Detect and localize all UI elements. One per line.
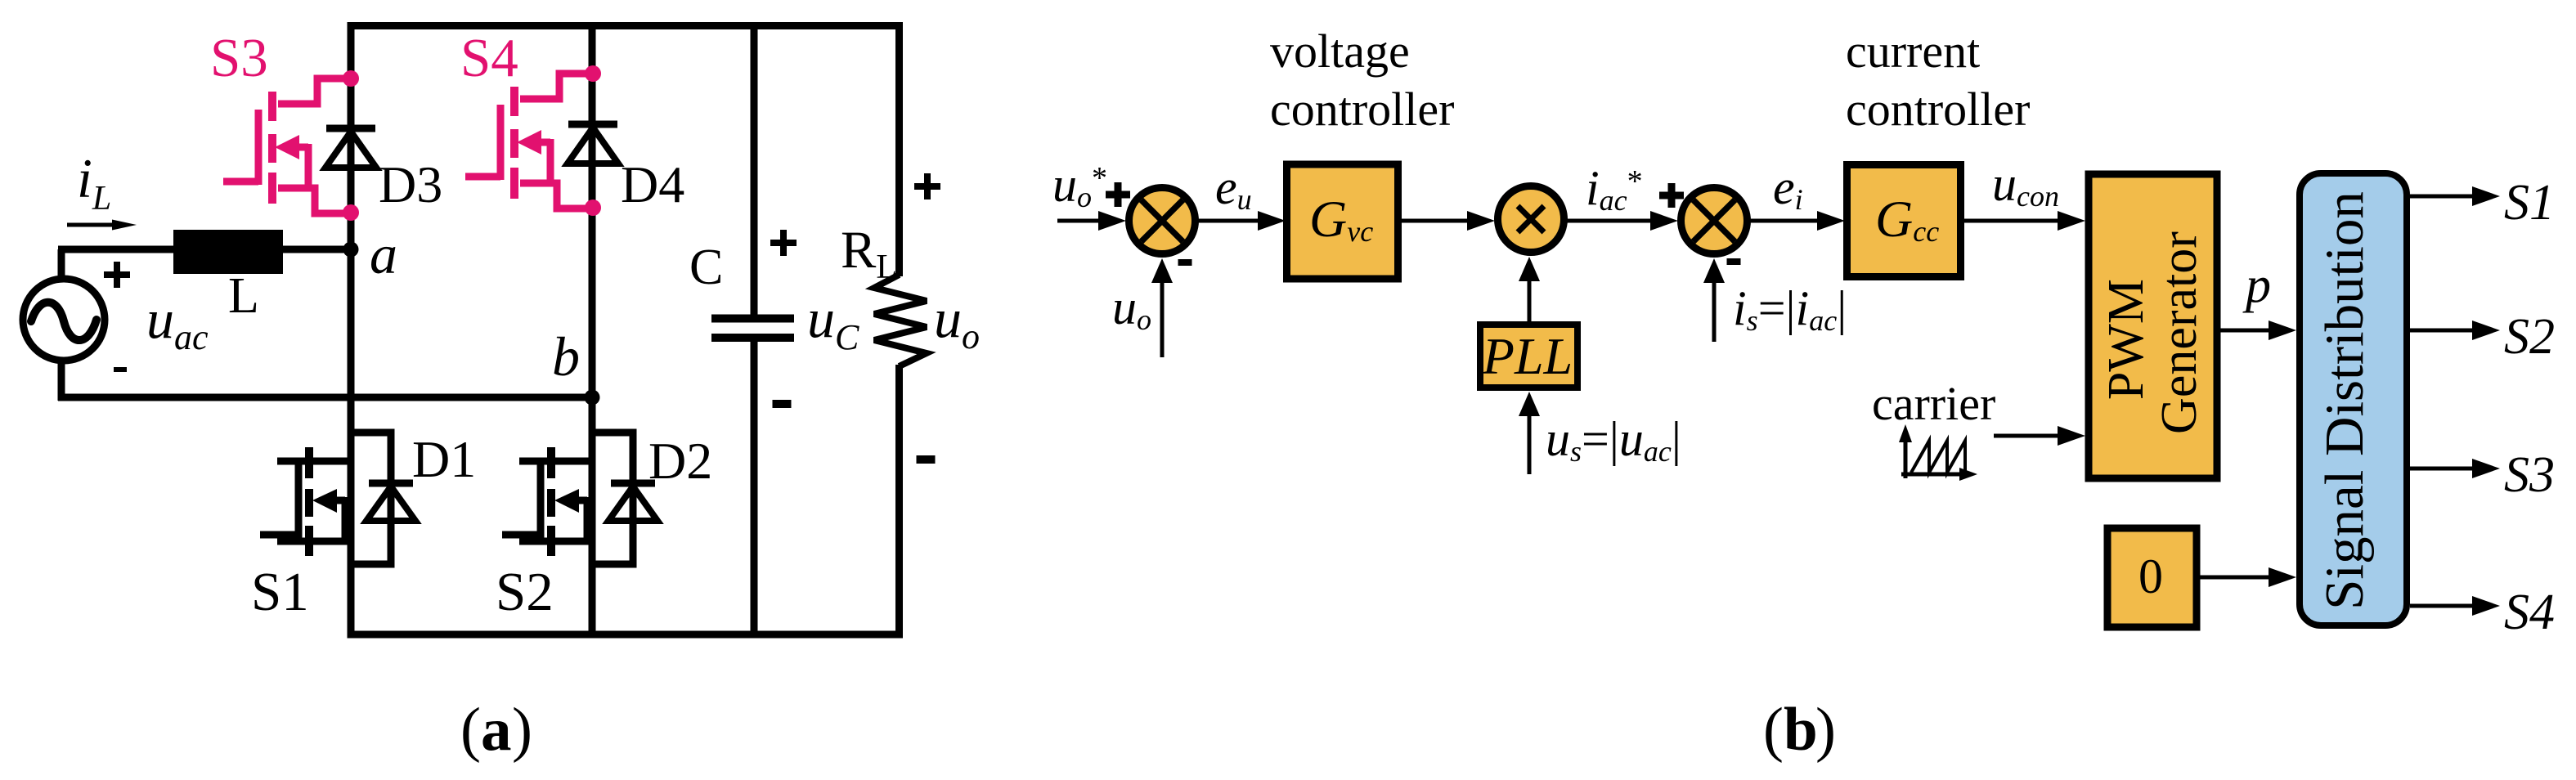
svg-text:S2: S2 xyxy=(496,562,554,622)
svg-text:PWM: PWM xyxy=(2098,279,2154,400)
svg-text:S4: S4 xyxy=(460,28,518,88)
svg-text:S3: S3 xyxy=(2504,447,2555,503)
svg-text:S2: S2 xyxy=(2504,309,2555,365)
svg-text:a: a xyxy=(370,223,397,285)
svg-text:C: C xyxy=(689,240,723,295)
svg-text:p: p xyxy=(2242,258,2271,313)
svg-text:S1: S1 xyxy=(2504,175,2555,231)
svg-text:0: 0 xyxy=(2138,549,2163,603)
svg-text:S3: S3 xyxy=(210,28,268,88)
svg-text:carrier: carrier xyxy=(1872,377,1995,430)
svg-text:voltage: voltage xyxy=(1270,25,1410,78)
svg-text:D1: D1 xyxy=(412,430,476,488)
svg-text:D3: D3 xyxy=(379,155,442,213)
svg-text:Signal Distribution: Signal Distribution xyxy=(2314,191,2375,610)
svg-text:S4: S4 xyxy=(2504,585,2555,640)
svg-text:D2: D2 xyxy=(648,432,712,490)
svg-text:a: a xyxy=(481,696,512,764)
svg-text:controller: controller xyxy=(1846,83,2030,136)
svg-text:current: current xyxy=(1846,25,1980,78)
svg-text:D4: D4 xyxy=(621,155,684,213)
svg-text:b: b xyxy=(552,325,580,388)
svg-text:S1: S1 xyxy=(251,562,309,622)
svg-text:(: ( xyxy=(460,696,481,764)
svg-text:): ) xyxy=(1815,696,1836,764)
svg-text:PLL: PLL xyxy=(1482,327,1573,385)
svg-text:b: b xyxy=(1784,696,1818,764)
svg-text:): ) xyxy=(512,696,532,764)
svg-text:(: ( xyxy=(1763,696,1784,764)
svg-text:Generator: Generator xyxy=(2152,231,2207,434)
svg-text:controller: controller xyxy=(1270,83,1454,136)
svg-text:L: L xyxy=(228,268,259,324)
